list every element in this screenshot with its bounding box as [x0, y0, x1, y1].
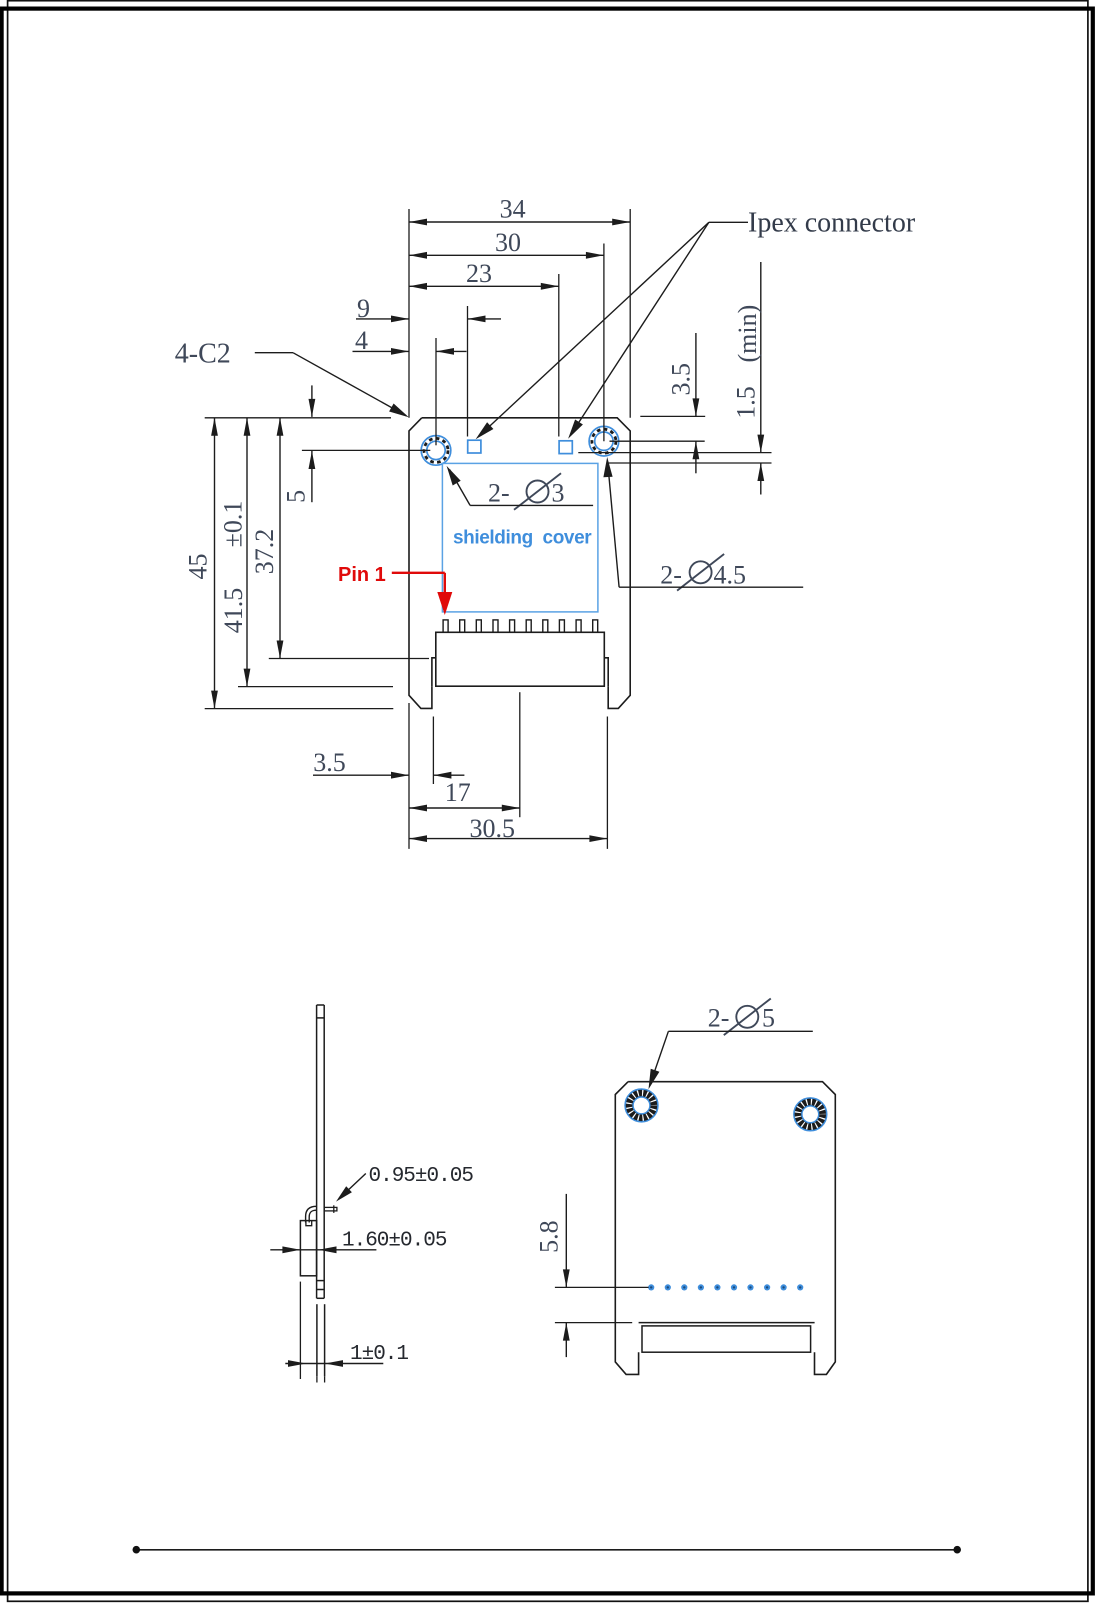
- svg-text:Pin 1: Pin 1: [338, 564, 386, 586]
- leader ipex to pad2: [570, 222, 709, 435]
- footer rule line: [135, 1549, 958, 1551]
- extension line module left edge: [408, 209, 410, 418]
- ipex connector pad 1: [468, 440, 481, 453]
- leader 2-dia5: [668, 1030, 812, 1032]
- leader Pin 1: [392, 572, 445, 574]
- svg-text:4-C2: 4-C2: [175, 339, 231, 370]
- extension line module top left: [205, 417, 391, 419]
- svg-text:(min): (min): [733, 305, 762, 363]
- dimension 30.5: [409, 838, 607, 840]
- dimension 5.8: [565, 1194, 567, 1288]
- extension line flange top 37.2: [269, 658, 429, 660]
- front connector body: [436, 632, 605, 686]
- svg-text:1.60±0.05: 1.60±0.05: [342, 1230, 447, 1253]
- dimension 45 +-0.1: [214, 418, 216, 709]
- back view connector top line: [639, 1322, 815, 1324]
- extension line module right edge: [629, 209, 631, 418]
- extension line below module left: [408, 703, 410, 849]
- leader 4-C2: [255, 352, 293, 354]
- cover lid line right: [578, 452, 771, 454]
- dimension 30: [409, 254, 604, 256]
- svg-text:34: 34: [500, 195, 526, 224]
- side view connector notch: [306, 1221, 312, 1226]
- back view connector slot: [642, 1326, 811, 1352]
- leader 2-dia3: [470, 504, 593, 506]
- leader 0.95: [342, 1174, 366, 1197]
- svg-text:5: 5: [762, 1004, 775, 1033]
- svg-text:2-: 2-: [488, 479, 510, 508]
- svg-text:9: 9: [357, 294, 370, 323]
- svg-text:3.5: 3.5: [667, 363, 696, 396]
- side view pin stub right: [324, 1207, 337, 1211]
- dimension 23: [409, 285, 559, 287]
- svg-text:37.2: 37.2: [250, 529, 279, 575]
- extension line module bottom 45: [205, 708, 394, 710]
- side view shield hook: [306, 1206, 317, 1222]
- extension line left hole center: [435, 338, 437, 445]
- svg-text:±0.1: ±0.1: [219, 501, 248, 548]
- extension line below module right: [606, 717, 608, 849]
- dimension 3.5 bottom: [313, 774, 409, 776]
- ipex connector pad 2: [559, 441, 572, 454]
- svg-text:4: 4: [355, 326, 368, 355]
- dimension 1 line: [285, 1363, 383, 1365]
- dimension 9: [356, 318, 409, 320]
- left hole centerline horizontal: [302, 449, 430, 451]
- side view extension line left: [299, 1282, 301, 1379]
- svg-text:5: 5: [282, 490, 311, 503]
- svg-text:1.5: 1.5: [732, 386, 761, 419]
- side view board top cap line: [317, 1017, 325, 1019]
- back hole right 2-dia5: [794, 1098, 827, 1131]
- dimension 1.5 min: [760, 262, 762, 453]
- side view bottom pin: [316, 1304, 318, 1376]
- extension line ipex1: [467, 306, 469, 437]
- dimension 1.60 line: [270, 1249, 376, 1251]
- side view pcb board: [316, 1005, 318, 1298]
- svg-text:3.5: 3.5: [313, 748, 346, 777]
- mounting hole right 2-dia4.5: [589, 426, 619, 456]
- dimension 3.5 right: [695, 333, 697, 416]
- svg-text:23: 23: [466, 259, 492, 288]
- svg-text:2-: 2-: [708, 1004, 730, 1033]
- mounting hole left 2-dia3: [421, 436, 451, 466]
- svg-text:4.5: 4.5: [714, 561, 747, 590]
- dimension 41.5: [246, 418, 248, 687]
- leader 2-dia4.5: [619, 586, 803, 588]
- right hole centerline horizontal: [610, 440, 705, 442]
- dimension 4: [353, 350, 410, 352]
- svg-text:shielding cover: shielding cover: [453, 528, 592, 549]
- svg-text:0.95±0.05: 0.95±0.05: [369, 1165, 474, 1188]
- extension line ipex2: [558, 274, 560, 437]
- svg-text:17: 17: [445, 778, 471, 807]
- dimension 37.2: [279, 418, 281, 659]
- dimension 34: [409, 221, 630, 223]
- svg-text:1±0.1: 1±0.1: [350, 1343, 408, 1366]
- extension line 3.5 bottom: [432, 717, 434, 785]
- side view board bottom ticks: [317, 1280, 325, 1282]
- extension line connector bottom 41.5: [238, 686, 393, 688]
- leader ipex to pad1: [479, 222, 709, 436]
- svg-text:30.5: 30.5: [470, 814, 516, 843]
- back extension line connector top: [555, 1322, 632, 1324]
- module top edge extension right: [640, 415, 705, 417]
- svg-text:Ipex connector: Ipex connector: [748, 208, 916, 239]
- back view pin dots: [648, 1284, 803, 1290]
- svg-text:5.8: 5.8: [535, 1220, 564, 1253]
- side view connector body: [300, 1221, 316, 1276]
- svg-text:3: 3: [552, 479, 565, 508]
- svg-text:45: 45: [184, 554, 213, 580]
- front connector left flange: [432, 658, 436, 686]
- dimension 5: [311, 385, 313, 417]
- svg-text:41.5: 41.5: [219, 588, 248, 634]
- cover top edge extension right: [607, 462, 771, 464]
- back extension line dots row: [555, 1286, 649, 1288]
- front connector right flange: [604, 658, 608, 686]
- shielding cover outline: [442, 463, 598, 612]
- back view module outline: [628, 1082, 835, 1375]
- front connector pins row: [443, 620, 598, 632]
- svg-text:30: 30: [495, 228, 521, 257]
- extension line right hole center: [603, 244, 605, 442]
- front view module outline: [422, 418, 630, 709]
- back hole left 2-dia5: [625, 1089, 658, 1122]
- side pin extension lines: [316, 1376, 318, 1382]
- leader ipex horizontal: [709, 221, 748, 223]
- extension line center: [519, 692, 521, 817]
- dimension 17: [409, 807, 520, 809]
- svg-text:2-: 2-: [660, 561, 682, 590]
